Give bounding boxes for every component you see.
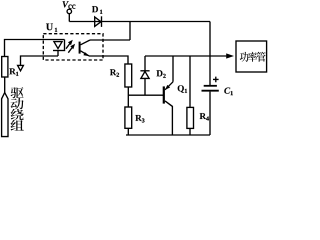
diode D1	[95, 16, 102, 27]
diode D2 (cathode up)	[140, 71, 149, 95]
wire: Vcc terminal lead	[68, 14, 70, 22]
label: drive winding text 动	[11, 98, 24, 109]
junction arrow into power tube box	[226, 53, 234, 58]
label Vcc	[63, 1, 69, 7]
transistor Q1 (PNP)	[164, 56, 173, 135]
label Q1	[178, 85, 184, 93]
phototransistor of U1	[80, 40, 90, 56]
label: drive winding text 绕	[11, 109, 24, 120]
label: drive winding text 驱	[11, 87, 24, 98]
wire: base node to Q1 base	[128, 94, 163, 96]
resistor R1	[2, 57, 8, 78]
label U1	[46, 24, 53, 31]
drive winding (coil body)	[2, 93, 8, 137]
label R3	[135, 115, 141, 121]
optocoupler U1 dashed package box	[43, 34, 103, 60]
wire: top rail corner down to C1 / output node	[209, 22, 211, 86]
label R4	[200, 113, 206, 119]
label D1	[92, 6, 98, 12]
label C1	[224, 88, 230, 94]
label R1	[9, 68, 15, 74]
wire: R4 bottom to ground rail	[189, 128, 191, 135]
label D2	[156, 70, 162, 76]
label: power tube text 管	[257, 52, 266, 62]
wire: R1 bottom to drive winding	[4, 77, 6, 93]
wire: opto collector to top rail branch	[90, 39, 130, 41]
light coupling arrows	[66, 40, 75, 53]
LED of optocoupler (anode wire, triangle, cathode bar, bend)	[53, 40, 65, 57]
wire: LED cathode out to input arrow	[21, 56, 59, 65]
label R2	[110, 69, 116, 75]
wire: top Vcc rail	[69, 21, 210, 23]
wire: bottom common rail	[126, 134, 210, 136]
wire: output rail down to R4	[189, 56, 191, 107]
label: power tube text 功	[240, 52, 249, 62]
wire: output rail from D2 node to power-tube arrow	[145, 55, 226, 57]
label: drive winding text 组	[11, 120, 24, 131]
wire: input top wire to LED anode	[5, 40, 65, 57]
resistor R2	[125, 64, 132, 87]
resistor R4	[187, 107, 194, 128]
label: power tube text 率	[248, 52, 257, 62]
capacitor C1 (polarized)	[202, 77, 219, 135]
wire: opto emitter to R2	[89, 56, 128, 64]
wire: emitter rail down to D2 cathode	[144, 56, 146, 71]
power tube block (功率管)	[236, 41, 267, 72]
resistor R3	[125, 107, 132, 128]
wire: R3 bottom to ground rail	[127, 128, 129, 135]
wire: branch from top rail down to opto collector	[129, 22, 131, 41]
wire: R2 bottom through base node to R3	[127, 87, 129, 107]
input arrow terminal (hollow triangle)	[18, 65, 24, 70]
power terminal Vcc (circle)	[67, 9, 72, 14]
